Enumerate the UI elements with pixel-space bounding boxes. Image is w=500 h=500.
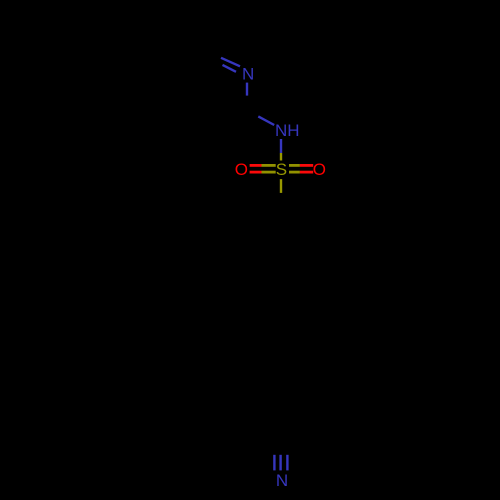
bond C2-N(H) (diagonal, blue half) xyxy=(258,116,274,125)
bond C#N nitrile triple (blue halves, three lines) xyxy=(274,455,287,471)
svg-text:N: N xyxy=(276,471,288,490)
bond S=O left double: sulfur halves xyxy=(262,165,276,172)
bond N(H)-S vertical: sulfur half xyxy=(280,153,282,161)
svg-text:O: O xyxy=(235,160,248,179)
svg-text:N: N xyxy=(242,64,254,83)
svg-text:O: O xyxy=(313,160,326,179)
bond S=O right double: sulfur halves xyxy=(289,165,300,172)
bond C6=N1 double (pyridine ring), blue halves xyxy=(221,58,240,72)
bond S=O right double: red halves xyxy=(300,165,313,172)
bond S-CH3 (vertical, sulfur half) xyxy=(280,179,282,193)
bond N1-C2 (vertical, blue half) xyxy=(246,83,248,96)
svg-text:NH: NH xyxy=(275,121,300,140)
svg-text:S: S xyxy=(276,160,287,179)
bond S=O left double: red halves xyxy=(250,165,262,172)
bond N(H)-S vertical: blue half xyxy=(280,139,282,153)
